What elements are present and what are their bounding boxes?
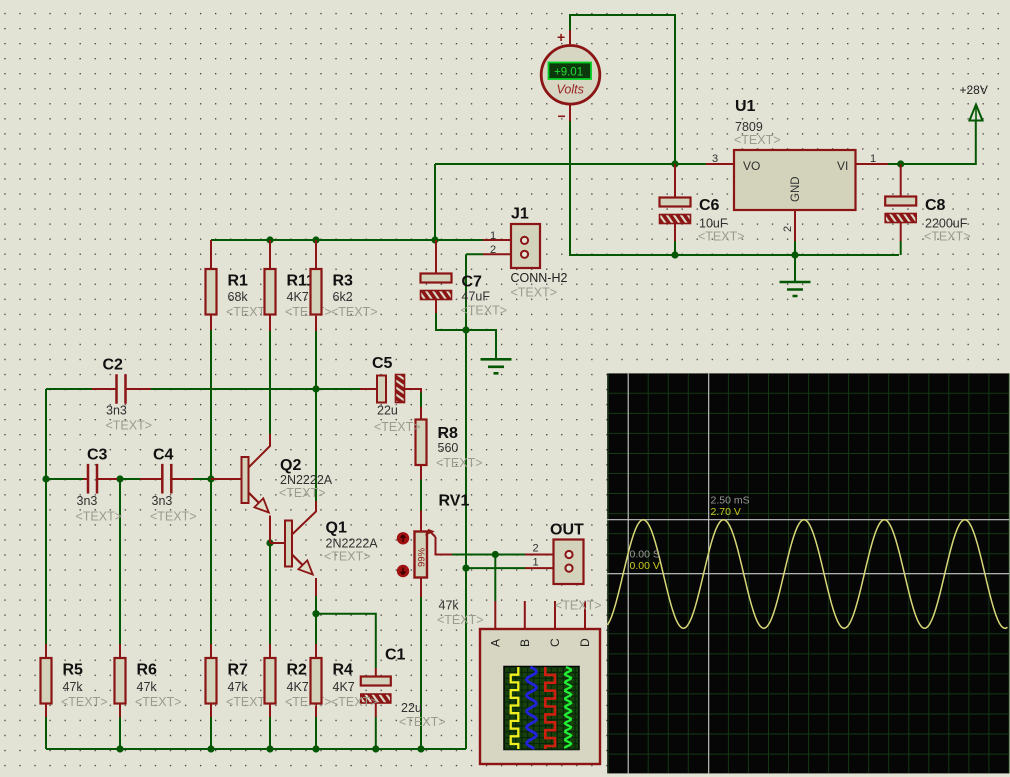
- svg-text:<TEXT>: <TEXT>: [924, 230, 971, 244]
- svg-text:560: 560: [438, 441, 459, 455]
- pin resistor top: [269, 644, 271, 659]
- svg-text:4K7: 4K7: [287, 680, 309, 694]
- pin OUT 2: [525, 554, 554, 556]
- pin C2 left: [92, 388, 117, 390]
- svg-text:99%: 99%: [417, 547, 428, 567]
- svg-text:<TEXT>: <TEXT>: [734, 133, 781, 147]
- svg-text:−: −: [558, 108, 566, 124]
- svg-text:R8: R8: [438, 425, 459, 442]
- svg-text:C7: C7: [462, 274, 483, 291]
- svg-text:R1: R1: [228, 273, 249, 290]
- pin U1 VI 1: [856, 163, 889, 165]
- voltmeter PROBE +9.01V: [541, 29, 600, 124]
- node: [897, 160, 904, 167]
- svg-text:47k: 47k: [63, 680, 84, 694]
- svg-text:C6: C6: [699, 197, 720, 214]
- wire R11 bottom: [269, 331, 271, 434]
- resistor R1: [206, 269, 273, 319]
- resistor R3: [311, 269, 378, 319]
- pin RV1 top: [420, 511, 422, 533]
- svg-text:R3: R3: [333, 273, 354, 290]
- wire R5 drop: [45, 479, 47, 644]
- pin resistor bottom: [210, 703, 212, 717]
- node: [417, 745, 424, 752]
- svg-text:2N2222A: 2N2222A: [326, 537, 379, 551]
- pin resistor top: [119, 644, 121, 659]
- node: [372, 745, 379, 752]
- svg-text:<TEXT>: <TEXT>: [374, 420, 421, 434]
- pin resistor bottom: [315, 703, 317, 717]
- svg-text:2: 2: [782, 226, 794, 232]
- resistor R11: [265, 269, 332, 319]
- pin OUT 1: [525, 567, 554, 569]
- pin C7 top: [435, 240, 437, 274]
- svg-text:<TEXT>: <TEXT>: [461, 304, 508, 318]
- pin Q1 collector: [292, 501, 316, 535]
- wire node to scope A: [494, 555, 496, 602]
- svg-text:6k2: 6k2: [333, 290, 353, 304]
- pin Q2 collector: [249, 434, 271, 468]
- pin U1 VO 3: [706, 163, 734, 165]
- svg-text:Q2: Q2: [280, 457, 301, 474]
- svg-text:VI: VI: [837, 159, 848, 173]
- svg-text:R5: R5: [63, 662, 84, 679]
- capacitor C3: [76, 446, 123, 523]
- wire gnd rail right vertical: [465, 254, 467, 749]
- wire R2 tail: [269, 717, 271, 749]
- pin C5 right to R8: [405, 389, 422, 393]
- svg-text:1: 1: [870, 153, 876, 165]
- wire J1 pin2 bit: [466, 253, 483, 255]
- svg-text:OUT: OUT: [550, 522, 584, 539]
- oscilloscope display panel: [607, 373, 1009, 773]
- svg-text:+: +: [557, 29, 565, 45]
- resistor R4: [311, 658, 378, 709]
- capacitor C8: [885, 197, 970, 244]
- wire voltmeter minus down: [570, 120, 899, 255]
- svg-text:3n3: 3n3: [106, 404, 127, 418]
- pin C8 top: [900, 164, 902, 197]
- wire R7 tail: [210, 717, 212, 749]
- wire emitter node to R4: [315, 614, 317, 644]
- pin resistor top: [315, 644, 317, 659]
- node: [312, 745, 319, 752]
- wire C8 bottom bit: [900, 241, 902, 255]
- svg-text:C8: C8: [925, 197, 946, 214]
- pin R1 top: [210, 240, 212, 269]
- svg-text:Q1: Q1: [326, 520, 347, 537]
- node: [116, 475, 123, 482]
- capacitor C7: [421, 274, 508, 318]
- svg-text:<TEXT>: <TEXT>: [106, 419, 153, 433]
- svg-text:47k: 47k: [137, 680, 158, 694]
- svg-text:<TEXT>: <TEXT>: [135, 695, 182, 709]
- pin Q1 emitter lower: [315, 578, 317, 596]
- potentiometer RV1: [397, 493, 484, 628]
- node: [312, 236, 319, 243]
- svg-text:CONN-H2: CONN-H2: [511, 271, 568, 285]
- svg-text:<TEXT>: <TEXT>: [331, 695, 378, 709]
- wire +9V rail: [435, 163, 706, 165]
- svg-text:0.00 V: 0.00 V: [630, 560, 660, 572]
- pin C4 right: [172, 478, 194, 480]
- wire R top bus: [211, 239, 483, 241]
- node: [266, 236, 273, 243]
- svg-text:<TEXT>: <TEXT>: [511, 286, 558, 300]
- svg-text:+9.01: +9.01: [554, 67, 583, 79]
- wire Q1 base drop to R2: [269, 545, 271, 644]
- pin C1 bottom: [375, 703, 377, 717]
- wire ground rail bottom: [46, 748, 466, 750]
- pin scope C: [554, 601, 556, 629]
- wire R8 to RV1: [420, 479, 422, 511]
- pin J1 1: [483, 239, 511, 241]
- pin voltmeter -: [569, 105, 571, 122]
- svg-text:C5: C5: [372, 355, 393, 372]
- wire C3-C4 node: [117, 478, 140, 480]
- oscilloscope component 4-channel: [480, 629, 600, 764]
- svg-text:2: 2: [490, 244, 496, 256]
- wire wiper to OUT2: [452, 554, 525, 556]
- node: [462, 565, 469, 572]
- svg-text:47k: 47k: [439, 599, 460, 613]
- svg-text:1: 1: [533, 557, 539, 569]
- svg-text:2200uF: 2200uF: [925, 217, 968, 231]
- svg-text:2: 2: [533, 543, 539, 555]
- svg-text:<TEXT>: <TEXT>: [436, 456, 483, 470]
- resistor R5: [41, 658, 108, 709]
- node: [431, 236, 438, 243]
- pin C5 left: [360, 388, 377, 390]
- resistor R7: [206, 658, 273, 709]
- pin U1 GND 2: [794, 210, 796, 241]
- pin scope D: [584, 601, 586, 629]
- wire R6 drop: [119, 479, 121, 644]
- svg-text:Volts: Volts: [557, 83, 584, 97]
- svg-text:47k: 47k: [228, 680, 249, 694]
- pin C1 top: [375, 668, 377, 677]
- svg-text:<TEXT>: <TEXT>: [437, 613, 484, 627]
- resistor R2: [265, 658, 332, 709]
- wire R7 drop: [210, 479, 212, 644]
- connector J1 CONN-H2: [490, 206, 567, 300]
- wire C2 corner down: [45, 389, 47, 479]
- node: [671, 251, 678, 258]
- svg-text:B: B: [518, 639, 532, 647]
- pin C7 bottom: [435, 300, 437, 314]
- wire emitter node to C1: [316, 614, 376, 668]
- svg-text:C4: C4: [153, 446, 174, 463]
- node: [671, 160, 678, 167]
- svg-text:<TEXT>: <TEXT>: [331, 305, 378, 319]
- regulator U1 7809: [712, 98, 876, 232]
- svg-text:R6: R6: [137, 662, 158, 679]
- wire C2-C5 horizontal: [151, 388, 361, 390]
- transistor Q2 2N2222A: [242, 457, 333, 513]
- wire RV1 tail: [420, 597, 422, 749]
- pin Q2 emitter lower: [269, 516, 271, 544]
- svg-text:<TEXT>: <TEXT>: [279, 486, 326, 500]
- capacitor C6: [660, 197, 745, 244]
- wire VI to +28V: [888, 121, 976, 164]
- svg-text:GND: GND: [790, 176, 802, 202]
- capacitor C2: [103, 356, 153, 432]
- connector OUT: [533, 522, 602, 613]
- wire R1 bottom to C4 node: [210, 330, 212, 479]
- svg-text:2.50 mS: 2.50 mS: [711, 495, 750, 507]
- resistor R6: [115, 658, 182, 709]
- svg-text:<TEXT>: <TEXT>: [399, 715, 446, 729]
- pin Q2 base: [211, 478, 242, 480]
- svg-text:<TEXT>: <TEXT>: [555, 599, 602, 613]
- svg-text:<TEXT>: <TEXT>: [61, 695, 108, 709]
- resistor R8: [416, 420, 483, 471]
- wire C5-R8 bit: [420, 393, 422, 408]
- pin scope A: [494, 601, 496, 629]
- svg-text:C3: C3: [87, 446, 108, 463]
- node: [42, 475, 49, 482]
- pin C8 bottom: [900, 223, 902, 241]
- svg-text:RV1: RV1: [439, 493, 470, 510]
- node: [207, 745, 214, 752]
- svg-text:22u: 22u: [377, 404, 398, 418]
- svg-text:<TEXT>: <TEXT>: [324, 550, 371, 564]
- wire R4 tail: [315, 717, 317, 749]
- svg-text:C: C: [548, 638, 562, 647]
- wire C4 to node: [193, 478, 211, 480]
- svg-text:68k: 68k: [228, 290, 249, 304]
- wire +9V rail down to J1: [434, 164, 436, 240]
- svg-text:2N2222A: 2N2222A: [280, 473, 333, 487]
- node: [492, 551, 499, 558]
- wire C7 bottom to ground: [436, 313, 496, 359]
- ground U1: [780, 282, 811, 296]
- pin resistor bottom: [45, 703, 47, 717]
- pin C3 right: [97, 478, 118, 480]
- pin resistor top: [45, 644, 47, 659]
- pin R11 top: [269, 240, 271, 269]
- svg-text:7809: 7809: [735, 120, 763, 134]
- svg-text:<TEXT>: <TEXT>: [150, 509, 197, 523]
- wire Q1 emitter drop: [315, 596, 317, 614]
- capacitor C5: [372, 355, 421, 434]
- pin resistor top: [210, 644, 212, 659]
- svg-text:D: D: [578, 638, 592, 647]
- svg-text:3n3: 3n3: [152, 494, 173, 508]
- pin R8 bottom: [420, 464, 422, 480]
- svg-text:<TEXT>: <TEXT>: [698, 230, 745, 244]
- pin Q1 base: [270, 542, 285, 544]
- pin RV1 bottom: [420, 578, 422, 598]
- capacitor C4: [150, 446, 197, 523]
- svg-text:4K7: 4K7: [333, 680, 355, 694]
- wire C1 tail: [375, 717, 377, 749]
- pin J1 2: [483, 253, 511, 255]
- node: [791, 251, 798, 258]
- pin C3 left: [83, 478, 87, 480]
- node: [462, 326, 469, 333]
- svg-text:R2: R2: [287, 662, 308, 679]
- pin C6 bottom: [674, 224, 676, 242]
- svg-text:2.70 V: 2.70 V: [711, 506, 741, 518]
- svg-text:4K7: 4K7: [287, 290, 309, 304]
- svg-text:3n3: 3n3: [77, 494, 98, 508]
- pin resistor bottom: [119, 703, 121, 717]
- svg-text:47uF: 47uF: [462, 290, 491, 304]
- svg-text:<TEXT>: <TEXT>: [285, 305, 332, 319]
- svg-text:10uF: 10uF: [699, 217, 728, 231]
- wire C2 left: [46, 388, 92, 390]
- pin voltmeter +: [569, 30, 571, 46]
- pin R3 bottom: [315, 315, 317, 332]
- node: [207, 475, 214, 482]
- node: [312, 385, 319, 392]
- svg-text:1: 1: [490, 230, 496, 242]
- svg-text:J1: J1: [511, 206, 529, 223]
- pin C4 left: [140, 478, 162, 480]
- wire R3 bottom: [315, 331, 317, 501]
- svg-text:A: A: [488, 639, 502, 647]
- wire voltmeter plus to top rail: [570, 15, 675, 163]
- svg-text:<TEXT>: <TEXT>: [285, 695, 332, 709]
- wire R5 tail: [45, 717, 47, 749]
- pin scope B: [524, 601, 526, 629]
- svg-text:C1: C1: [385, 647, 406, 664]
- svg-text:22u: 22u: [401, 701, 422, 715]
- pin R11 bottom: [269, 315, 271, 332]
- pin C6 top: [674, 164, 676, 198]
- pin R1 bottom: [210, 315, 212, 331]
- node: [266, 745, 273, 752]
- svg-text:R4: R4: [333, 662, 354, 679]
- svg-text:VO: VO: [743, 159, 760, 173]
- wire R6 tail: [119, 717, 121, 749]
- svg-text:U1: U1: [735, 98, 756, 115]
- svg-text:R7: R7: [228, 662, 249, 679]
- svg-text:C2: C2: [103, 356, 124, 373]
- transistor Q1 2N2222A: [285, 520, 378, 575]
- capacitor C1: [361, 647, 446, 730]
- svg-text:+28V: +28V: [960, 83, 988, 97]
- node: [312, 610, 319, 617]
- node: [266, 539, 273, 546]
- wire C3 left bit: [46, 478, 83, 480]
- svg-text:<TEXT>: <TEXT>: [76, 509, 123, 523]
- node: [116, 745, 123, 752]
- wire U1 gnd stem: [794, 241, 796, 282]
- power +28V: [960, 83, 988, 121]
- wire C6 bottom bit: [674, 241, 676, 255]
- pin R8 top: [420, 407, 422, 420]
- ground near C7: [481, 359, 512, 373]
- wire OUT1 from gnd rail: [466, 567, 525, 569]
- pin C2 right: [127, 388, 152, 390]
- svg-text:3: 3: [712, 153, 718, 165]
- pin R3 top: [315, 240, 317, 269]
- svg-text:0.00 S: 0.00 S: [630, 549, 660, 561]
- pin resistor bottom: [269, 703, 271, 717]
